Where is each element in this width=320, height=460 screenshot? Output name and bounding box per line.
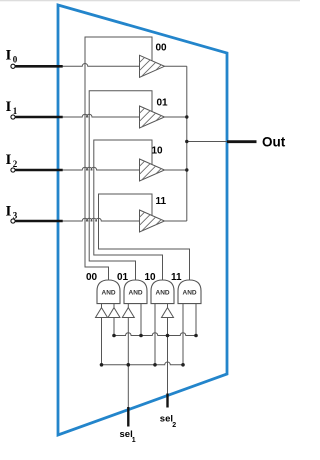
svg-text:2: 2 bbox=[172, 422, 176, 429]
svg-text:sel: sel bbox=[160, 414, 173, 425]
svg-text:01: 01 bbox=[117, 272, 129, 283]
svg-text:Out: Out bbox=[262, 135, 286, 150]
svg-text:I: I bbox=[6, 99, 12, 115]
svg-text:I: I bbox=[6, 204, 12, 220]
svg-text:1: 1 bbox=[13, 106, 18, 116]
svg-text:I: I bbox=[6, 48, 12, 64]
svg-text:00: 00 bbox=[156, 43, 168, 54]
svg-text:10: 10 bbox=[145, 272, 157, 283]
svg-text:00: 00 bbox=[86, 272, 98, 283]
svg-text:sel: sel bbox=[120, 429, 133, 440]
svg-text:10: 10 bbox=[152, 146, 164, 157]
svg-text:AND: AND bbox=[156, 290, 170, 297]
svg-text:I: I bbox=[6, 152, 12, 168]
svg-text:3: 3 bbox=[13, 211, 18, 221]
svg-text:AND: AND bbox=[129, 290, 143, 297]
svg-text:AND: AND bbox=[183, 290, 197, 297]
svg-text:1: 1 bbox=[132, 437, 136, 444]
svg-text:01: 01 bbox=[157, 98, 169, 109]
svg-text:AND: AND bbox=[102, 290, 116, 297]
svg-text:11: 11 bbox=[156, 196, 167, 207]
svg-text:2: 2 bbox=[13, 159, 18, 169]
svg-text:0: 0 bbox=[13, 55, 18, 65]
svg-text:11: 11 bbox=[171, 272, 182, 283]
